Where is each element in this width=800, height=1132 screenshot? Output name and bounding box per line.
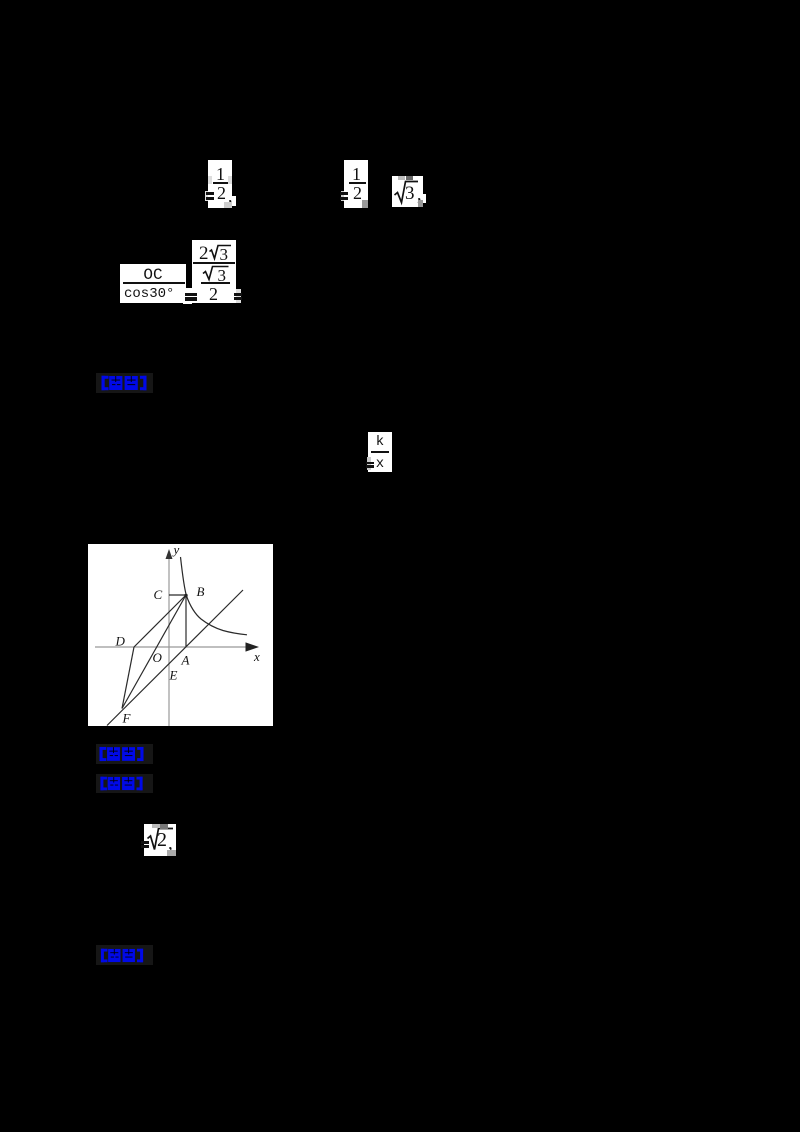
svg-text:x: x [253, 649, 260, 664]
svg-text:F: F [122, 711, 132, 726]
svg-text:O: O [153, 650, 163, 665]
svg-text:C: C [154, 587, 163, 602]
svg-text:y: y [172, 544, 180, 557]
svg-text:D: D [115, 634, 126, 649]
svg-text:B: B [197, 584, 205, 599]
svg-text:A: A [181, 653, 190, 668]
svg-text:E: E [169, 668, 178, 683]
